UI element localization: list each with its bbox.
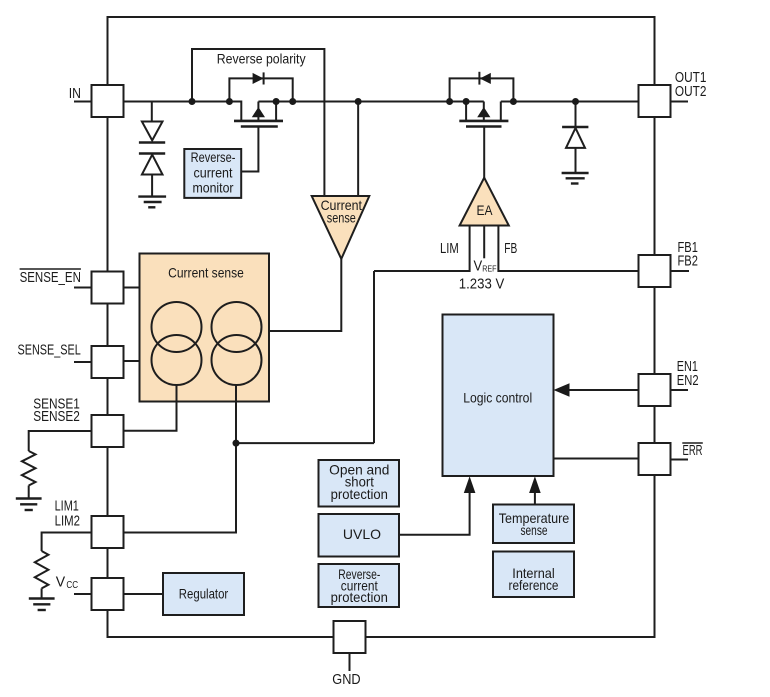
- pin VCC: [56, 575, 124, 610]
- svg-text:EN2: EN2: [677, 373, 699, 389]
- node junction D2 anode: [510, 98, 517, 105]
- svg-text:V: V: [474, 259, 483, 275]
- wire current sense output: [269, 259, 341, 331]
- svg-text:SENSE_EN: SENSE_EN: [20, 270, 81, 286]
- outer border: [108, 17, 655, 637]
- wire LIM drop: [373, 271, 375, 443]
- box UVLO: [319, 514, 400, 557]
- ground (R1): [16, 499, 42, 511]
- reverse-current monitor box: [184, 149, 241, 198]
- node junction Q1 source: [273, 98, 280, 105]
- svg-text:CC: CC: [66, 580, 78, 591]
- transistor Q2 (reverse-blocking MOSFET): [459, 102, 508, 179]
- pin LIM1/LIM2: [55, 499, 124, 548]
- svg-text:GND: GND: [332, 672, 360, 688]
- pin ERR: [639, 443, 703, 475]
- svg-text:V: V: [56, 575, 66, 591]
- wire right source output: [124, 385, 237, 533]
- ground (R2): [29, 599, 55, 611]
- svg-text:protection: protection: [331, 589, 388, 605]
- svg-text:SENSE_SEL: SENSE_SEL: [18, 342, 81, 358]
- ground (output clamp): [562, 173, 589, 184]
- wire reverse-polarity loop: [192, 49, 324, 196]
- diode D1 (parallel with Q1): [229, 72, 292, 101]
- svg-text:monitor: monitor: [193, 180, 234, 196]
- svg-text:Current sense: Current sense: [168, 265, 244, 281]
- svg-text:reference: reference: [509, 577, 559, 593]
- wire EN to logic (arrow): [554, 383, 639, 396]
- svg-text:Reverse polarity: Reverse polarity: [217, 51, 306, 67]
- current sense block (orange): [140, 254, 270, 402]
- wire vcc to regulator: [124, 593, 164, 595]
- wire main rail segment 1: [124, 101, 242, 103]
- svg-text:LIM: LIM: [440, 241, 459, 257]
- svg-text:current: current: [194, 165, 233, 181]
- node junction Q2 drain: [463, 98, 470, 105]
- svg-text:sense: sense: [327, 209, 356, 225]
- resistor R1 (SENSE): [22, 431, 92, 498]
- svg-text:REF: REF: [482, 264, 496, 274]
- resistor R2 (LIM): [35, 533, 92, 599]
- wire logic to ERR: [554, 458, 639, 460]
- svg-text:protection: protection: [331, 486, 388, 502]
- svg-text:Logic control: Logic control: [463, 390, 532, 406]
- svg-text:FB: FB: [504, 241, 517, 257]
- op-amp current sense (triangle): [312, 196, 370, 259]
- svg-text:SENSE2: SENSE2: [33, 409, 80, 425]
- pin SENSE_SEL: [18, 342, 124, 378]
- node junction D1 cathode: [289, 98, 296, 105]
- pin SENSE1/SENSE2: [33, 396, 123, 447]
- svg-text:sense: sense: [521, 522, 548, 538]
- svg-text:LIM1: LIM1: [55, 499, 79, 515]
- wire temp sense to logic (arrow): [529, 476, 541, 504]
- wire EA FB input: [497, 226, 499, 273]
- diode D2 (reverse-blocking, parallel with Q2): [450, 72, 514, 102]
- pin FB1/FB2: [639, 240, 698, 287]
- logic control box: [443, 315, 554, 477]
- svg-text:FB2: FB2: [678, 253, 698, 269]
- wire EA LIM input: [469, 226, 471, 273]
- svg-text:IN: IN: [69, 86, 81, 102]
- svg-text:OUT2: OUT2: [675, 84, 707, 100]
- svg-text:1.233 V: 1.233 V: [459, 277, 505, 293]
- node junction D2 cathode: [446, 98, 453, 105]
- wire sense-sel to block: [124, 360, 140, 362]
- wire sense-en to block: [124, 287, 140, 289]
- wire FB row: [498, 270, 638, 272]
- transistor Q1 (pass MOSFET): [234, 101, 283, 172]
- wire LIM row: [374, 270, 470, 272]
- svg-text:Reverse-: Reverse-: [191, 149, 236, 165]
- pin SENSE_EN: [20, 269, 124, 304]
- pin GND: [332, 621, 365, 688]
- node junction reverse-polarity loop tap: [189, 98, 196, 105]
- diode D3 (input clamp, dual back-to-back): [139, 102, 165, 196]
- box temperature sense: [493, 505, 574, 544]
- node junction D1 anode: [226, 98, 233, 105]
- svg-text:LIM2: LIM2: [55, 514, 80, 530]
- box regulator: [163, 573, 244, 615]
- svg-text:UVLO: UVLO: [343, 526, 381, 542]
- wire left source output: [124, 385, 177, 431]
- pin IN: [69, 85, 124, 117]
- box reverse-current protection: [319, 564, 400, 607]
- svg-text:ERR: ERR: [683, 443, 703, 459]
- ground (input clamp): [138, 197, 166, 208]
- wire main rail segment 3: [501, 101, 639, 103]
- box internal reference: [493, 552, 574, 598]
- svg-text:EA: EA: [477, 202, 494, 218]
- node junction LIM net: [233, 440, 240, 447]
- pin EN1/EN2: [639, 359, 699, 406]
- diode D4 (output clamp): [562, 102, 588, 173]
- wire main rail segment 2: [258, 101, 483, 103]
- node junction current-sense tap: [355, 98, 362, 105]
- node junction D4 tap: [572, 98, 579, 105]
- box open and short protection: [319, 460, 400, 507]
- wire EA VREF input: [483, 226, 485, 259]
- svg-text:Regulator: Regulator: [179, 586, 229, 602]
- op-amp EA (error amp): [460, 178, 509, 226]
- wire LIM to junction: [236, 442, 374, 444]
- pin OUT1/OUT2: [639, 70, 707, 117]
- wire current sense input right: [357, 102, 359, 197]
- wire UVLO to logic (arrow): [399, 476, 475, 535]
